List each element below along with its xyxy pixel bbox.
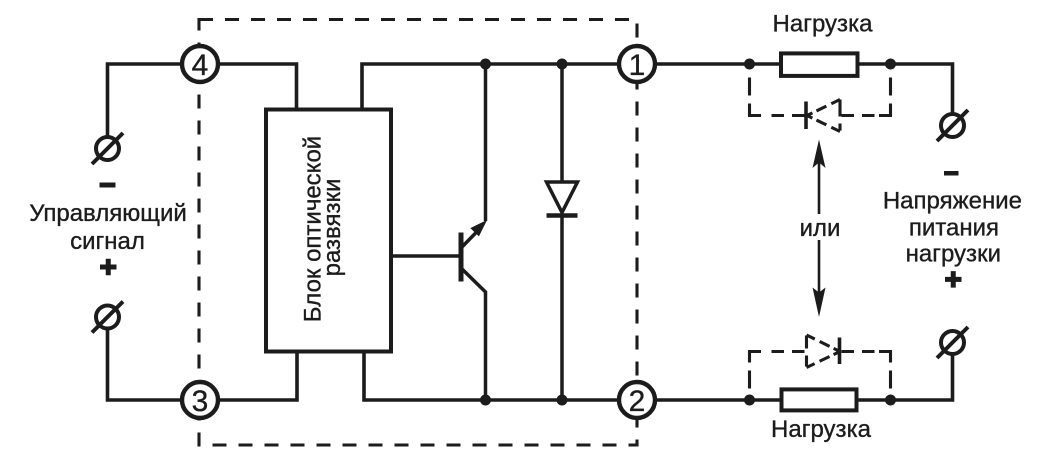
svg-text:нагрузки: нагрузки xyxy=(906,240,1001,267)
alternative diode (top) dashed lower edge xyxy=(807,116,840,132)
wire: pin 2 to bottom load and supply plus xyxy=(656,356,953,401)
svg-text:4: 4 xyxy=(192,49,209,82)
minus sign (supply) xyxy=(944,171,959,176)
supply minus terminal (circle-slash) xyxy=(937,110,968,141)
terminal 1 xyxy=(619,46,655,82)
svg-text:Нагрузка: Нагрузка xyxy=(771,416,872,443)
minus sign (control signal) xyxy=(100,183,116,188)
svg-text:развязки: развязки xyxy=(319,179,346,277)
dashed wire: alternative diode path (top left corner) xyxy=(750,105,762,116)
junction node (top load left) xyxy=(744,59,755,70)
dashed wire: alternative diode path (bottom left vertical) xyxy=(748,363,751,395)
dashed wire: alternative diode path (bottom left corner) xyxy=(750,352,762,363)
junction node (diode / top rail) xyxy=(557,59,568,70)
transistor Q1 collector diagonal xyxy=(461,229,480,249)
wire: pin 1 to top load and supply minus xyxy=(656,64,953,113)
svg-text:1: 1 xyxy=(629,49,646,82)
optocoupler block U1 xyxy=(266,110,391,352)
transistor Q1 collector arrowhead xyxy=(471,221,486,236)
junction node (collector / top rail) xyxy=(480,59,491,70)
wire: base from optocoupler block xyxy=(391,254,459,258)
svg-text:2: 2 xyxy=(629,385,646,418)
alternative diode (bottom) dashed lower edge xyxy=(807,352,840,368)
terminal 2 xyxy=(619,382,655,418)
svg-text:Напряжение: Напряжение xyxy=(883,188,1022,215)
wire: pin 4 to optocoupler block top xyxy=(219,64,297,110)
plus sign (supply) xyxy=(945,271,962,288)
dashed boundary box (relay outline) xyxy=(199,20,637,446)
control minus input terminal (circle-slash) xyxy=(92,133,123,164)
junction node (emitter / bottom rail) xyxy=(480,395,491,406)
arrow (or-indicator, pointing up) xyxy=(813,140,826,215)
wire: block top to collector node and pin 1 xyxy=(362,64,618,110)
svg-text:Нагрузка: Нагрузка xyxy=(773,11,874,38)
dashed wire: alternative diode path (bottom right vertical) xyxy=(889,363,892,395)
svg-text:3: 3 xyxy=(192,385,209,418)
wire: diode VD1 to bottom rail xyxy=(560,216,564,401)
alternative diode (bottom) dashed left edge xyxy=(805,336,808,367)
transistor Q1 base bar xyxy=(459,233,464,282)
load resistor (bottom) xyxy=(782,389,857,410)
load resistor (top) xyxy=(781,53,858,76)
alternative diode (bottom) dashed upper edge xyxy=(807,335,840,351)
junction node (top load right) xyxy=(885,59,896,70)
svg-text:или: или xyxy=(800,215,841,242)
dashed wire: alternative diode path (top right corner) xyxy=(879,105,891,116)
svg-text:Управляющий: Управляющий xyxy=(29,200,187,227)
supply plus terminal (circle-slash) xyxy=(937,327,968,358)
svg-text:питания: питания xyxy=(909,215,999,242)
dashed wire: alternative diode path (bottom left horizontal) xyxy=(764,350,805,353)
wire: control minus terminal to pin 4 xyxy=(108,64,182,136)
dashed wire: alternative diode path (top right vertical) xyxy=(889,70,892,105)
diode VD1 triangle xyxy=(547,182,578,213)
alternative diode (top) dashed right edge xyxy=(838,100,841,131)
plus sign (control signal) xyxy=(100,259,117,276)
junction node (bottom load right) xyxy=(885,395,896,406)
junction node (bottom load left) xyxy=(744,395,755,406)
dashed wire: alternative diode path (top left horizontal) xyxy=(764,114,805,117)
diode VD1 cathode bar xyxy=(547,213,578,218)
control plus input terminal (circle-slash) xyxy=(92,302,123,333)
dashed wire: alternative diode path (top right horizontal) xyxy=(842,114,877,117)
dashed wire: alternative diode path (top left vertical) xyxy=(748,70,751,105)
dashed wire: alternative diode path (bottom right horizontal) xyxy=(842,350,877,353)
wire: block bottom to emitter rail and pin 2 xyxy=(364,352,618,401)
svg-text:сигнал: сигнал xyxy=(70,228,145,255)
transistor Q1 emitter and wire to bottom rail xyxy=(461,268,486,400)
alternative diode (bottom, pointing right) cathode bar xyxy=(838,338,842,365)
arrow (or-indicator, pointing down) xyxy=(813,240,826,317)
dashed wire: alternative diode path (bottom right corner) xyxy=(879,352,891,363)
junction node (diode / bottom rail) xyxy=(557,395,568,406)
wire: collector vertical xyxy=(484,64,488,221)
wire: pin 3 to optocoupler block bottom xyxy=(219,352,297,401)
alternative diode (top) dashed upper edge xyxy=(807,100,840,116)
wire: control plus terminal to pin 3 xyxy=(108,330,182,400)
terminal 4 xyxy=(182,46,218,82)
wire: top node to diode VD1 xyxy=(560,64,564,182)
terminal 3 xyxy=(182,382,218,418)
alternative diode (top, pointing left) cathode bar xyxy=(804,102,808,130)
